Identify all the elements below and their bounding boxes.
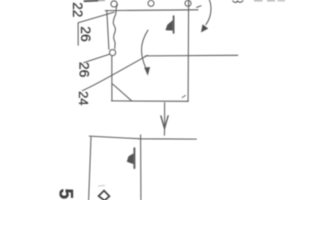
faint smudge above diamond	[99, 184, 105, 187]
down arrow barbs	[161, 116, 168, 129]
corner overshoot mark	[182, 95, 185, 97]
cut-off text mark 1 at top edge	[233, 1, 243, 3]
svg-text:5: 5	[55, 189, 76, 200]
cut-off text mark 3	[268, 0, 275, 2]
right edge of upper enclosure	[187, 0, 190, 101]
svg-text:26: 26	[77, 62, 93, 78]
leader line label 26 (lower, to circle)	[84, 54, 110, 62]
cut-off text mark 4	[278, 0, 285, 2]
output wire from enclosure	[145, 54, 238, 57]
hole circle 1 on top edge	[111, 1, 117, 7]
port diamond on lower enclosure	[99, 191, 110, 201]
wavy sketched line on left side	[113, 4, 117, 48]
speaker driver icon (upper) magnet bar	[173, 16, 175, 33]
small dash near enclosure top right	[197, 6, 201, 8]
rotation arrow head	[201, 25, 208, 32]
svg-text:24: 24	[76, 91, 91, 105]
right edge overshoot tick	[140, 135, 142, 139]
bottom edge of upper enclosure	[112, 100, 189, 102]
svg-text:26: 26	[78, 26, 94, 42]
faint continuation of label 22 leader	[99, 0, 105, 2]
upper-left edge of enclosure	[107, 10, 109, 49]
top edge of upper enclosure	[105, 9, 198, 12]
corner triangle hypotenuse	[113, 84, 132, 101]
curved arrow inside enclosure	[141, 30, 147, 67]
bracket of label 26 (upper)	[78, 12, 114, 45]
circle on left edge	[110, 50, 116, 56]
top line of lower enclosure	[89, 136, 196, 139]
leader line label 24	[82, 55, 147, 90]
left edge of lower enclosure	[89, 137, 91, 200]
hole circle 3 on top edge	[185, 0, 191, 6]
down arrow shaft	[163, 103, 165, 136]
svg-text:22: 22	[70, 2, 85, 17]
curved arrow head	[145, 67, 150, 75]
speaker driver icon (lower) cone	[127, 154, 133, 164]
leader smear of label 22 at top edge	[85, 0, 99, 2]
hole circle 2 on top edge	[148, 0, 154, 6]
right edge of lower enclosure	[140, 139, 142, 200]
cut-off text mark 2	[255, 0, 263, 2]
speaker driver icon (lower) magnet bar	[133, 148, 135, 168]
speaker driver icon (upper) cone	[166, 21, 173, 31]
lower-left edge of enclosure	[111, 56, 113, 101]
rotation arrow (top right)	[206, 0, 211, 25]
